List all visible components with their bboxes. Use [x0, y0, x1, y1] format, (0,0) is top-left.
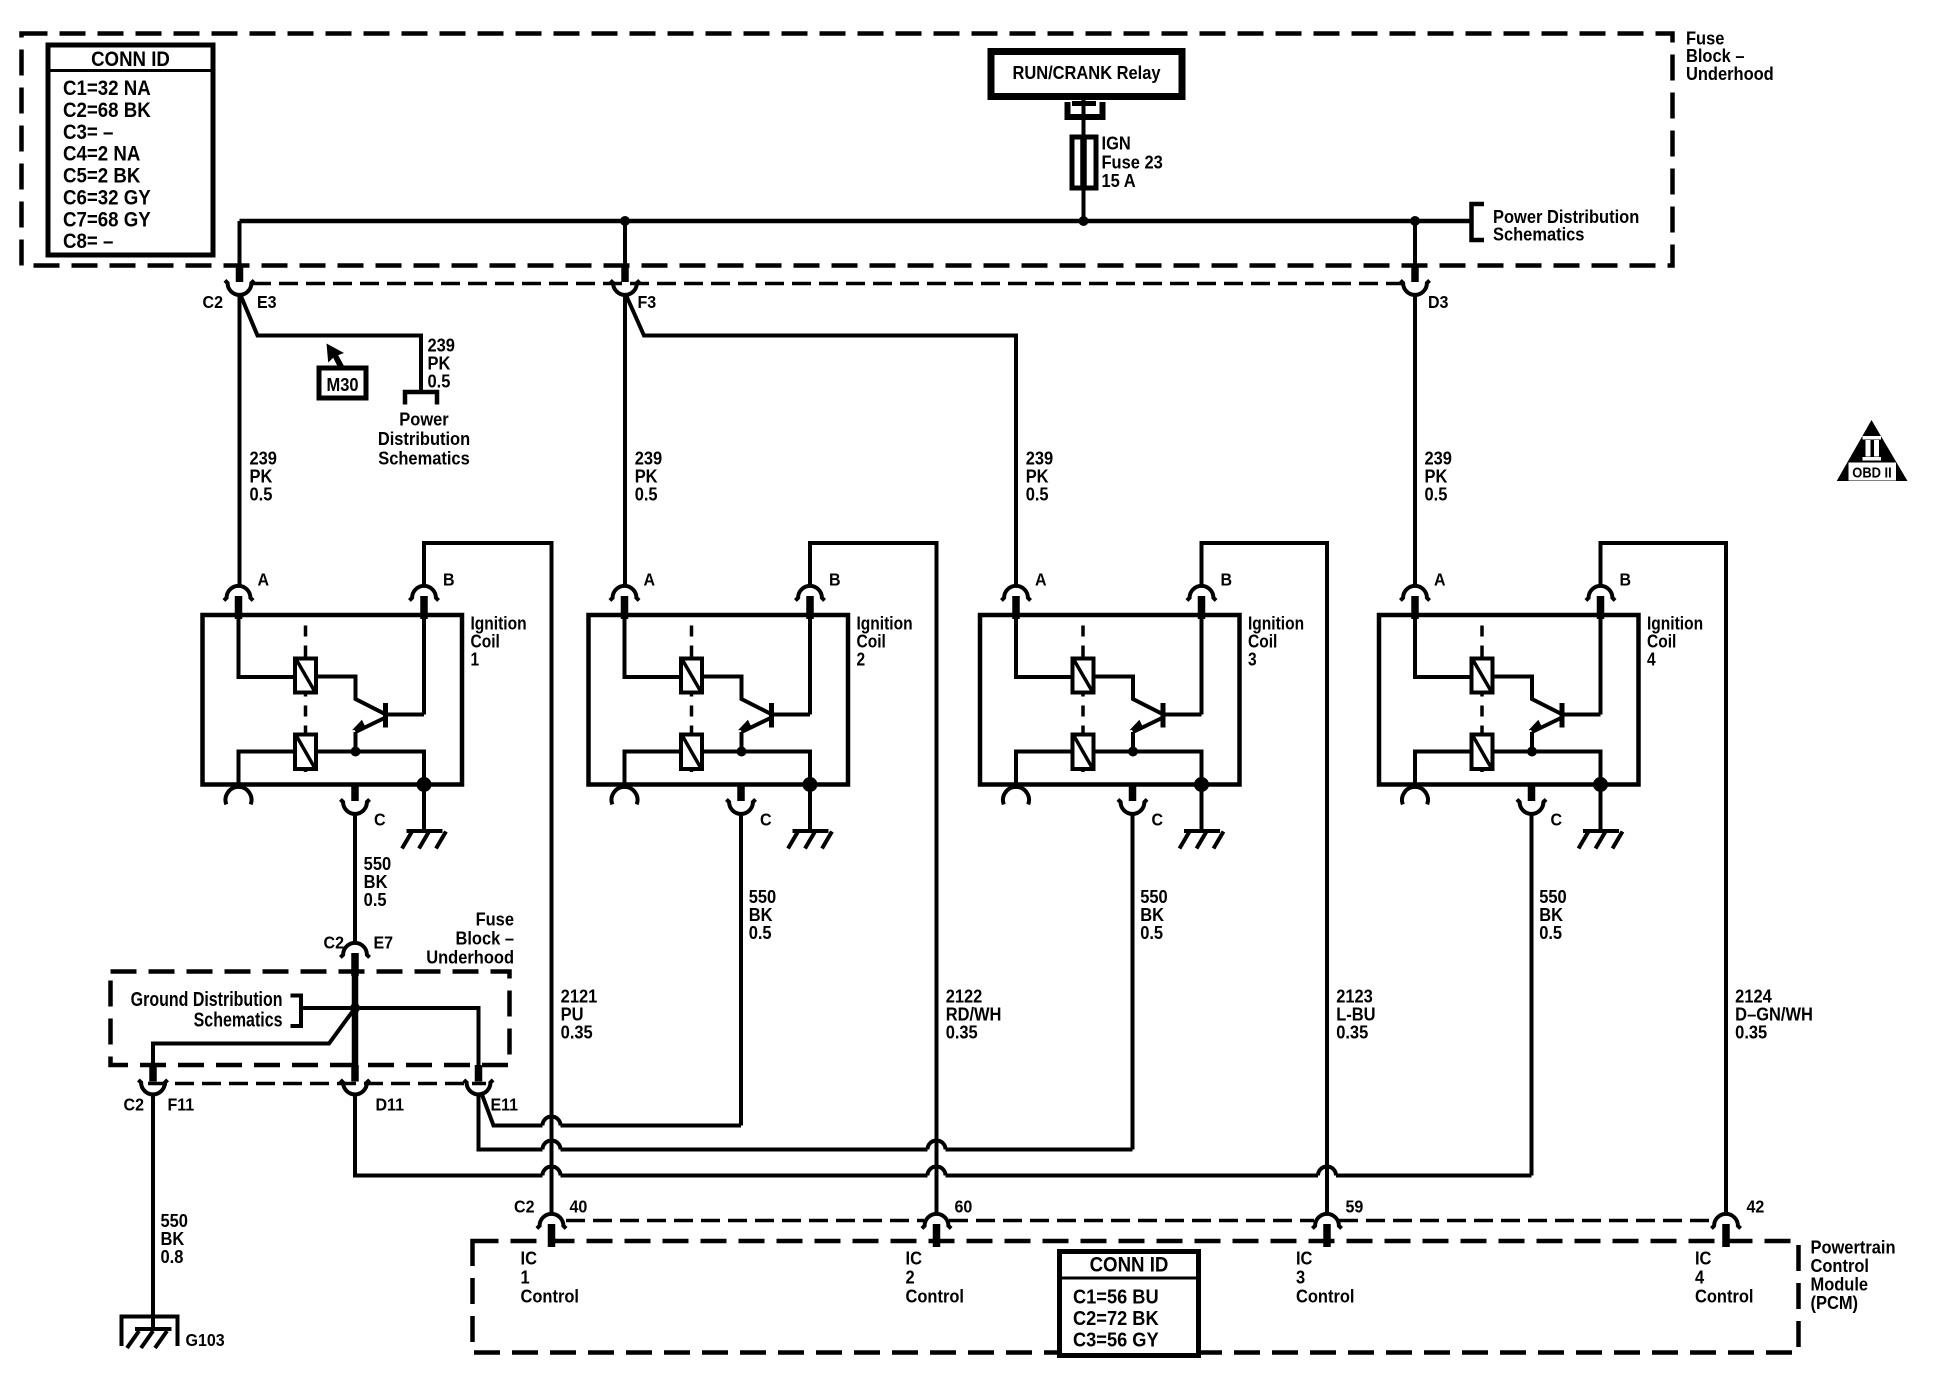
svg-text:Control: Control — [520, 1285, 578, 1306]
coil 4 wire primary to transistor base — [1493, 677, 1561, 714]
svg-text:Control: Control — [1296, 1285, 1354, 1306]
wire 550 BK coil 4 pin C down to ground net — [1530, 815, 1534, 1176]
transistor Q2 collector wire to pin B — [774, 615, 810, 715]
svg-text:0.35: 0.35 — [946, 1022, 978, 1043]
svg-text:C6=32 GY: C6=32 GY — [63, 186, 151, 209]
CONN ID table (fuse block underhood) — [48, 45, 213, 255]
svg-text:2: 2 — [906, 1266, 915, 1287]
transistor Q1 emitter — [356, 718, 386, 733]
svg-text:C7=68 GY: C7=68 GY — [63, 208, 151, 231]
coil 1 internal secondary wire — [239, 752, 425, 785]
coil 3 ground junction dot — [1194, 777, 1209, 792]
OBD II triangle symbol — [1837, 420, 1908, 481]
coil 3 secondary winding — [1073, 735, 1094, 770]
wire 550 BK coil 1 pin C to connector E7 — [353, 815, 357, 943]
wire coil 4 pin B to PCM (IC 4 control) — [1601, 543, 1727, 1214]
power distribution schematics reference bracket — [1472, 204, 1485, 240]
coil 2 ground junction dot — [803, 777, 818, 792]
wire 239 PK from D3 to ignition coil 4 pin A — [1413, 295, 1417, 586]
svg-text:4: 4 — [1695, 1266, 1704, 1287]
svg-text:Schematics: Schematics — [194, 1008, 283, 1031]
splice branch wire from F3 to ignition coil 3 pin A — [626, 295, 1016, 586]
svg-text:2: 2 — [856, 649, 865, 670]
svg-text:B: B — [1619, 570, 1631, 590]
coil 2 wire primary to transistor base — [702, 677, 770, 714]
svg-text:D3: D3 — [1428, 292, 1448, 312]
connector F3 — [621, 266, 629, 283]
svg-text:C: C — [1550, 810, 1562, 830]
coil 2 pin C connector — [737, 785, 745, 802]
transistor Q2 base bar — [769, 703, 774, 728]
coil 4 pin C connector — [1528, 785, 1536, 802]
svg-text:(PCM): (PCM) — [1811, 1292, 1859, 1313]
junction dot fuse-bus — [1079, 216, 1089, 226]
coil 3 ground symbol — [1184, 829, 1220, 833]
svg-text:C2: C2 — [124, 1095, 144, 1115]
coil 4 pin B connector — [1586, 586, 1615, 601]
svg-text:B: B — [829, 570, 841, 590]
svg-text:Distribution: Distribution — [378, 428, 470, 449]
svg-text:0.35: 0.35 — [1735, 1022, 1767, 1043]
coil 1 ground symbol — [407, 829, 443, 833]
coil 2 internal wire pin A to primary winding — [625, 615, 682, 677]
svg-text:C2=68 BK: C2=68 BK — [63, 99, 151, 122]
wire hop over 2122 (lower ground wire) — [928, 1167, 946, 1176]
ground fuse block connector dotted edge line — [148, 1082, 486, 1086]
connector C2 cavity F11 — [149, 1065, 157, 1082]
relay socket terminal — [1072, 101, 1096, 106]
svg-text:C3= –: C3= – — [63, 121, 113, 144]
coil 1 ground junction dot — [417, 777, 432, 792]
connector E11 — [475, 1065, 483, 1082]
svg-text:RUN/CRANK Relay: RUN/CRANK Relay — [1012, 62, 1160, 83]
svg-text:C4=2 NA: C4=2 NA — [63, 143, 140, 166]
connector pin 59 — [1312, 1214, 1341, 1229]
coil 4 ground symbol — [1583, 829, 1619, 833]
wire hop over 2121 (upper ground wire) — [543, 1117, 561, 1126]
coil 4 ground junction dot — [1593, 777, 1608, 792]
fuse block - underhood dashed outline box — [22, 34, 1673, 266]
wire splice to D11 (fuse block internal) — [352, 973, 359, 1065]
svg-text:Control: Control — [906, 1285, 964, 1306]
coil 2 internal ground wire — [808, 785, 812, 832]
svg-text:D11: D11 — [375, 1095, 403, 1115]
coil 4 emitter junction dot — [1527, 747, 1537, 757]
connector D3 — [1411, 266, 1419, 283]
ignition coil 3 box — [980, 615, 1240, 785]
coil 2 core dashed line — [690, 626, 694, 773]
wire relay to fuse 23 — [1082, 97, 1086, 140]
junction dot bus at D3 tap — [1410, 216, 1420, 226]
coil 1 secondary output connector — [226, 787, 252, 804]
coil 3 pin B connector — [1187, 586, 1216, 601]
svg-text:1: 1 — [520, 1266, 529, 1287]
svg-text:A: A — [1035, 570, 1047, 590]
coil 4 secondary winding — [1472, 735, 1493, 770]
svg-text:0.35: 0.35 — [1336, 1022, 1368, 1043]
connector D11 — [351, 1065, 359, 1082]
coil 1 primary winding — [295, 659, 316, 693]
wire coil 2 pin B to PCM (IC 2 control) — [810, 543, 937, 1214]
fuse block - underhood (ground) dashed outline box — [111, 972, 510, 1066]
PCM connector dotted edge line — [566, 1219, 924, 1223]
svg-text:CONN ID: CONN ID — [91, 48, 170, 71]
coil 1 internal ground wire — [422, 785, 426, 832]
wire 239 PK from E3 to ignition coil 1 pin A — [238, 295, 242, 586]
coil 2 internal secondary wire — [625, 752, 811, 785]
coil 2 emitter junction dot — [737, 747, 747, 757]
junction dot E7 splice — [350, 1003, 360, 1013]
ignition coil 2 box — [589, 615, 849, 785]
coil 4 pin A connector — [1400, 586, 1429, 601]
svg-text:OBD II: OBD II — [1852, 465, 1891, 481]
svg-text:C2: C2 — [514, 1197, 534, 1217]
svg-text:0.5: 0.5 — [1140, 922, 1163, 943]
junction dot bus at F3 tap — [620, 216, 630, 226]
svg-text:C: C — [1151, 810, 1163, 830]
coil 3 pin C connector — [1129, 785, 1137, 802]
ground G103 symbol — [122, 1317, 178, 1347]
svg-text:E11: E11 — [490, 1095, 518, 1115]
coil 3 emitter junction dot — [1128, 747, 1138, 757]
coil 2 pin A connector — [610, 586, 639, 601]
svg-text:Control: Control — [1695, 1285, 1753, 1306]
coil 1 emitter junction dot — [351, 747, 361, 757]
connector pin 60 — [922, 1214, 951, 1229]
svg-text:4: 4 — [1647, 649, 1656, 670]
coil 4 internal secondary wire — [1415, 752, 1601, 785]
coil 3 internal wire pin A to primary winding — [1016, 615, 1073, 677]
transistor Q4 collector wire to pin B — [1565, 615, 1601, 715]
powertrain control module dashed outline box — [473, 1241, 1799, 1353]
svg-text:IC: IC — [1695, 1247, 1712, 1268]
transistor Q3 collector wire to pin B — [1166, 615, 1202, 715]
svg-text:Power: Power — [399, 409, 449, 430]
svg-text:C1=56 BU: C1=56 BU — [1073, 1286, 1159, 1309]
svg-text:0.5: 0.5 — [1539, 922, 1562, 943]
wire hop over 2123 (lower ground wire) — [1318, 1167, 1336, 1176]
coil 2 primary winding — [681, 659, 702, 693]
coil 1 pin C connector — [351, 785, 359, 802]
coil 3 internal ground wire — [1200, 785, 1204, 832]
wire 550 BK coil 3 pin C down to ground net — [1131, 815, 1135, 1150]
svg-text:B: B — [1221, 570, 1233, 590]
wire splice to F11 — [153, 1008, 355, 1065]
wire splice to E11 — [355, 1008, 479, 1065]
coil 4 internal ground wire — [1599, 785, 1603, 832]
coil 3 core dashed line — [1081, 626, 1085, 773]
coil 3 pin A connector — [1001, 586, 1030, 601]
svg-text:IC: IC — [1296, 1247, 1313, 1268]
svg-text:A: A — [1434, 570, 1446, 590]
transistor Q3 base bar — [1161, 703, 1166, 728]
transistor Q1 collector wire to pin B — [388, 615, 424, 715]
coil 4 secondary output connector — [1402, 787, 1428, 804]
transistor Q4 emitter — [1532, 718, 1562, 733]
splice branch wire from E3 to power distribution — [241, 295, 422, 392]
svg-text:C: C — [760, 810, 772, 830]
wire 550 BK F11 to ground G103 — [151, 1094, 155, 1329]
transistor Q1 base bar — [383, 703, 388, 728]
svg-text:C2=72 BK: C2=72 BK — [1073, 1307, 1159, 1330]
connector pin 42 — [1711, 1214, 1740, 1229]
power distribution continuation symbol — [405, 392, 437, 405]
svg-text:0.5: 0.5 — [250, 484, 273, 505]
wire ground distribution bracket to E7 splice — [301, 1006, 355, 1010]
fuse block connector dotted edge line — [252, 282, 1402, 286]
wire fuse 23 to ignition bus — [1082, 188, 1086, 221]
ignition coil 1 box — [203, 615, 463, 785]
ignition voltage bus wire — [240, 219, 1472, 224]
wire coil 1 pin B to PCM (IC 1 control) — [424, 543, 552, 1214]
svg-text:0.5: 0.5 — [364, 889, 387, 910]
coil 1 pin B connector — [409, 586, 438, 601]
coil 1 pin A connector — [224, 586, 253, 601]
connector C2 pin 40 — [537, 1214, 566, 1229]
svg-text:F11: F11 — [167, 1095, 194, 1115]
coil 1 internal wire pin A to primary winding — [239, 615, 296, 677]
svg-text:C: C — [374, 810, 386, 830]
connector C2 cavity E7 — [340, 943, 369, 958]
svg-text:C5=2 BK: C5=2 BK — [63, 165, 141, 188]
M30 label box — [319, 368, 366, 398]
wire 239 PK from F3 to ignition coil 2 pin A — [623, 295, 627, 586]
svg-text:60: 60 — [954, 1197, 972, 1217]
coil 1 wire primary to transistor base — [316, 677, 384, 714]
wire hop over 2121 (lower ground wire) — [543, 1167, 561, 1176]
ground net wire D11 to coil 4 pin C (lower) — [355, 1094, 543, 1176]
coil 2 ground symbol — [793, 829, 829, 833]
coil 3 secondary output connector — [1003, 787, 1029, 804]
coil 1 secondary winding — [295, 735, 316, 770]
wire hop over 2121 (middle ground wire) — [543, 1141, 561, 1150]
svg-text:C8= –: C8= – — [63, 230, 113, 253]
wire 550 BK coil 2 pin C down to ground net — [739, 815, 743, 1126]
svg-text:Schematics: Schematics — [1493, 224, 1585, 245]
coil 2 secondary winding — [681, 735, 702, 770]
coil 4 internal wire pin A to primary winding — [1415, 615, 1472, 677]
connector C2 cavity E3 — [236, 266, 244, 283]
wire coil 3 pin B to PCM (IC 3 control) — [1202, 543, 1328, 1214]
ground distribution schematics reference bracket — [291, 996, 302, 1027]
svg-text:42: 42 — [1747, 1197, 1765, 1217]
svg-text:Fuse: Fuse — [476, 909, 515, 930]
svg-text:Schematics: Schematics — [378, 448, 470, 469]
wire hop over 2122 (middle ground wire) — [928, 1141, 946, 1150]
ignition coil 4 box — [1379, 615, 1639, 785]
svg-text:0.35: 0.35 — [561, 1022, 593, 1043]
svg-text:0.8: 0.8 — [161, 1246, 184, 1267]
wire bus down to connector E3 — [238, 221, 242, 266]
svg-text:C2: C2 — [324, 933, 344, 953]
svg-text:59: 59 — [1346, 1197, 1364, 1217]
transistor Q3 emitter — [1133, 718, 1163, 733]
M30 hotspot arrow — [327, 344, 345, 368]
svg-text:E3: E3 — [257, 292, 277, 312]
coil 3 primary winding — [1073, 659, 1094, 693]
svg-text:Block –: Block – — [455, 928, 514, 949]
svg-text:C2: C2 — [203, 292, 223, 312]
svg-text:40: 40 — [570, 1197, 588, 1217]
svg-text:0.5: 0.5 — [1424, 484, 1447, 505]
svg-text:15 A: 15 A — [1101, 170, 1135, 191]
fuse 23 (IGN 15 A) — [1072, 137, 1096, 188]
transistor Q2 emitter — [742, 718, 772, 733]
coil 4 primary winding — [1472, 659, 1493, 693]
svg-text:0.5: 0.5 — [635, 484, 658, 505]
svg-text:IC: IC — [520, 1247, 537, 1268]
svg-text:0.5: 0.5 — [749, 922, 772, 943]
RUN/CRANK relay box — [991, 52, 1182, 97]
svg-text:Underhood: Underhood — [1686, 63, 1774, 84]
svg-text:0.5: 0.5 — [428, 371, 451, 392]
svg-text:IC: IC — [906, 1247, 923, 1268]
svg-text:A: A — [258, 570, 270, 590]
svg-text:A: A — [643, 570, 655, 590]
svg-text:3: 3 — [1296, 1266, 1305, 1287]
coil 3 internal secondary wire — [1016, 752, 1202, 785]
svg-text:C3=56 GY: C3=56 GY — [1073, 1329, 1159, 1352]
ground net wire E11 to coil 2 pin C (upper) — [481, 1092, 543, 1126]
coil 2 pin B connector — [795, 586, 824, 601]
svg-text:3: 3 — [1248, 649, 1257, 670]
coil 1 core dashed line — [304, 626, 308, 773]
coil 3 wire primary to transistor base — [1094, 677, 1162, 714]
ground net wire E11 to coil 3 pin C (middle) — [479, 1094, 543, 1150]
coil 2 secondary output connector — [612, 787, 638, 804]
svg-text:C1=32 NA: C1=32 NA — [63, 77, 151, 100]
wire bus down to connector F3 — [623, 221, 627, 266]
svg-text:1: 1 — [471, 649, 480, 670]
svg-text:G103: G103 — [186, 1330, 225, 1350]
svg-text:Underhood: Underhood — [426, 947, 514, 968]
svg-text:0.5: 0.5 — [1026, 484, 1049, 505]
svg-text:B: B — [443, 570, 455, 590]
CONN ID table (PCM) — [1060, 1252, 1199, 1356]
coil 4 core dashed line — [1480, 626, 1484, 773]
svg-text:F3: F3 — [637, 292, 656, 312]
transistor Q4 base bar — [1560, 703, 1565, 728]
svg-text:M30: M30 — [326, 374, 358, 395]
svg-text:E7: E7 — [373, 933, 393, 953]
wire bus down to connector D3 — [1413, 221, 1417, 266]
svg-text:CONN ID: CONN ID — [1090, 1254, 1169, 1277]
